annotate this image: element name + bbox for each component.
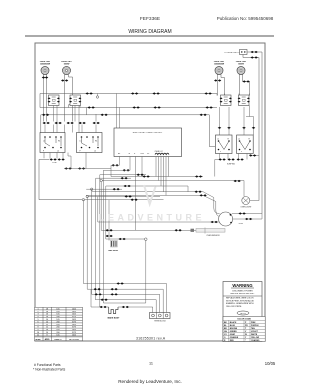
svg-text:1500W: 1500W [64, 64, 70, 66]
wires below left boxes, connector row [44, 153, 63, 159]
loop wire from connector to left and down [39, 160, 85, 200]
connector splice [45, 76, 49, 78]
svg-text:L1: L1 [217, 139, 219, 141]
svg-text:11: 11 [37, 334, 39, 336]
svg-text:L1: L1 [80, 141, 82, 143]
wire from receptacle to right bus [247, 52, 262, 214]
wire [96, 177, 131, 179]
connector splice [101, 299, 108, 301]
wire [229, 129, 244, 135]
connector below P2 [61, 79, 68, 81]
connector splice [121, 177, 128, 179]
junction circles [91, 188, 93, 190]
svg-text:W: W [245, 334, 247, 336]
extra middle wires [100, 174, 146, 176]
broil element body [110, 241, 117, 248]
long bus wire top [40, 93, 217, 95]
connector on that wire [251, 51, 258, 53]
svg-text:1015: 1015 [72, 334, 76, 336]
wire [69, 75, 73, 122]
svg-text:BLUE: BLUE [230, 325, 236, 327]
svg-text:H1: H1 [58, 141, 60, 143]
svg-text:L1: L1 [238, 139, 240, 141]
connector splice [58, 158, 65, 160]
connectors on buses [86, 92, 93, 94]
connector splice [205, 92, 212, 94]
connector splice [113, 188, 120, 190]
connector splice [88, 106, 95, 108]
connector splice [243, 80, 250, 82]
connector [251, 56, 258, 58]
wire [156, 157, 169, 196]
connector splice [137, 174, 144, 176]
wire y=176.5 [111, 176, 203, 178]
diagram border frame [35, 43, 265, 341]
connector splice [219, 158, 226, 160]
wire [145, 241, 147, 304]
svg-text:11: 11 [149, 362, 153, 366]
svg-text:#DSI: #DSI [239, 223, 244, 225]
svg-text:GREEN: GREEN [230, 331, 237, 333]
infinite switch S3 (right) [220, 95, 232, 106]
wire [97, 175, 100, 307]
watermark V logo [144, 185, 156, 204]
svg-text:TERM BLOCK: TERM BLOCK [154, 321, 166, 323]
wire [129, 306, 153, 308]
connector splice [195, 175, 202, 177]
svg-text:BEFORE SERVICING UNIT.: BEFORE SERVICING UNIT. [231, 293, 255, 295]
connectors row y=168.5 [68, 153, 86, 169]
svg-text:L2: L2 [57, 151, 59, 153]
connector splice [131, 92, 138, 94]
surface unit P2 [63, 67, 71, 75]
title rule [25, 35, 274, 37]
svg-text:YELLOW: YELLOW [251, 337, 259, 339]
svg-text:TEMP°C: TEMP°C [54, 339, 62, 341]
connector splice [228, 158, 235, 160]
svg-text:# Functional Parts: # Functional Parts [34, 363, 61, 367]
junction node [100, 179, 102, 181]
svg-text:EXAMPLE: GREEN WIRE WITH: EXAMPLE: GREEN WIRE WITH [226, 302, 254, 305]
connector splice [252, 127, 256, 129]
wire [95, 178, 156, 312]
wire [92, 189, 160, 312]
wire [89, 196, 161, 198]
svg-text:OVEN SENSOR: OVEN SENSOR [206, 235, 220, 237]
junction node [86, 195, 88, 197]
connector splice [249, 154, 256, 156]
connector splice [106, 235, 113, 237]
svg-text:OVEN LIGHT: OVEN LIGHT [241, 206, 253, 208]
wire [215, 160, 219, 177]
connector splice [50, 158, 57, 160]
wire [85, 199, 164, 201]
wire [69, 105, 80, 108]
wire [220, 106, 254, 136]
wire y=195.4 [86, 195, 220, 216]
svg-text:REPLACE WIRE, WIRE COLOR: REPLACE WIRE, WIRE COLOR [226, 297, 254, 300]
infinite switch S2 [69, 95, 81, 106]
svg-text:L2: L2 [94, 151, 96, 153]
junction node [96, 96, 98, 98]
component group [35, 308, 79, 341]
connector splice [100, 306, 107, 308]
wire [103, 169, 130, 171]
watermark circle [219, 212, 233, 226]
receptacle box [240, 50, 248, 55]
connector splice [200, 114, 207, 116]
node [244, 51, 245, 52]
wire [86, 188, 122, 190]
wire [250, 154, 259, 156]
junction node [82, 199, 84, 201]
infinite switch S1 [48, 95, 60, 106]
connector splice [153, 92, 160, 94]
surface unit P1 [41, 67, 49, 75]
wire [111, 164, 119, 166]
wire [110, 165, 112, 176]
connector splice [131, 199, 138, 201]
svg-text:COLOR CODE: COLOR CODE [237, 319, 251, 321]
wires down from unit P2 [64, 75, 66, 122]
wire [129, 157, 131, 171]
connector splice [242, 127, 246, 129]
svg-text:316255301 rev.A: 316255301 rev.A [136, 336, 166, 340]
connector splice [123, 169, 130, 171]
svg-text:PURPLE: PURPLE [251, 325, 259, 327]
junction node [145, 238, 148, 241]
wire y=186 [106, 186, 188, 192]
svg-text:PINK: PINK [251, 322, 256, 324]
wires down from unit P1 [44, 75, 47, 122]
connector splice [154, 106, 161, 108]
connector splice [111, 288, 118, 290]
wires below P3 [218, 75, 225, 96]
svg-text:LEADVENTURE: LEADVENTURE [99, 213, 205, 223]
svg-text:H1: H1 [95, 141, 97, 143]
connector splice [122, 306, 129, 308]
connector splice [133, 106, 140, 108]
color code table [223, 317, 265, 342]
wire [103, 170, 145, 303]
wire lower from receptacle [243, 55, 259, 201]
connector splice [234, 180, 241, 182]
wire [40, 94, 86, 133]
svg-text:BRL ELMT: BRL ELMT [108, 250, 119, 252]
wire y=180.5 [102, 181, 244, 197]
connector row under right boxes [220, 154, 248, 160]
svg-text:UL STYLE: UL STYLE [69, 339, 79, 341]
svg-text:10/05: 10/05 [265, 361, 276, 366]
connector splice [195, 191, 202, 193]
svg-text:ELECTRONIC OVEN CONTROL: ELECTRONIC OVEN CONTROL [133, 132, 163, 134]
wire [101, 182, 196, 231]
svg-text:BROWN: BROWN [230, 328, 238, 330]
svg-text:105: 105 [56, 334, 59, 336]
svg-text:SURF IND: SURF IND [227, 164, 236, 166]
connector splice [67, 122, 74, 124]
svg-text:DISCONNECT POWER: DISCONNECT POWER [232, 291, 253, 293]
box [196, 229, 225, 233]
svg-text:NOTE: NOTE [240, 313, 246, 315]
svg-text:WIRE: WIRE [35, 339, 41, 341]
svg-text:ORANGE: ORANGE [230, 336, 239, 339]
connector splice [95, 293, 102, 295]
connector splice [78, 167, 85, 169]
svg-text:TAN: TAN [251, 327, 255, 330]
wire [243, 75, 250, 96]
wire [64, 168, 111, 170]
svg-text:1250/2500W: 1250/2500W [40, 64, 50, 66]
infinite switch S4 (right) [238, 95, 250, 106]
wires descending from EOC pins [118, 157, 120, 166]
connector splice [206, 106, 213, 108]
svg-text:1250/2500W: 1250/2500W [214, 64, 224, 66]
connector splice [200, 194, 207, 196]
node [241, 51, 242, 52]
connector splice [237, 158, 244, 160]
connector splice [55, 122, 62, 124]
long bus wire bottom [40, 107, 217, 109]
svg-text:WARNING: WARNING [232, 283, 252, 288]
wire [98, 197, 219, 223]
wire [107, 306, 122, 308]
wire [204, 228, 206, 234]
connector splice [143, 175, 150, 177]
svg-text:GRAY: GRAY [230, 333, 236, 336]
junction circle on top bus [97, 94, 99, 96]
svg-text:RED: RED [230, 340, 235, 342]
wire [135, 157, 137, 231]
svg-text:CHASSIS: CHASSIS [251, 339, 260, 342]
long bus wire third [41, 115, 215, 147]
connectors on fanout [117, 282, 124, 284]
connector splice [94, 288, 101, 290]
connector splice [42, 76, 46, 78]
connector splice [106, 229, 113, 231]
svg-text:WHITE: WHITE [251, 334, 258, 336]
bake element squiggle [109, 307, 118, 314]
connector splice [79, 122, 86, 124]
wires from switches down to control boxes left [54, 106, 97, 133]
svg-text:VIOLET: VIOLET [251, 331, 259, 333]
box [191, 229, 195, 232]
svg-text:BAKE ELMT: BAKE ELMT [108, 317, 120, 320]
svg-text:L1: L1 [43, 141, 45, 143]
connector splice [65, 167, 72, 169]
connector splice [124, 185, 131, 187]
connector rows below EOC [112, 164, 119, 166]
wire [106, 186, 145, 239]
svg-text:1500W: 1500W [238, 64, 244, 66]
connectors above left control boxes [43, 122, 50, 124]
connector splice [125, 195, 132, 197]
connector splice [218, 127, 222, 129]
surface unit P4 [237, 67, 245, 75]
connector splice [42, 114, 49, 116]
connector splice [214, 79, 221, 81]
wire [45, 125, 96, 133]
wires below P4 [239, 75, 241, 96]
svg-text:YELLOW STRIPE.: YELLOW STRIPE. [226, 306, 242, 308]
wire [112, 241, 116, 247]
wire [87, 197, 163, 313]
svg-text:BLACK: BLACK [230, 321, 237, 324]
connector splice [111, 293, 118, 295]
svg-text:8: 8 [46, 334, 47, 336]
svg-text:NOTICE FIRST, STROKE ALUM.: NOTICE FIRST, STROKE ALUM. [226, 299, 254, 302]
connector splice [101, 114, 108, 116]
wire y=191.7 [92, 192, 220, 214]
svg-text:OVEN LGT: OVEN LGT [155, 151, 163, 153]
svg-text:Rendered by LeadVenture, Inc.: Rendered by LeadVenture, Inc. [118, 379, 182, 384]
connector splice [227, 127, 231, 129]
svg-text:AWG: AWG [45, 338, 50, 341]
wire [117, 94, 120, 129]
connector splice [93, 122, 100, 124]
wire [141, 157, 143, 177]
svg-text:* Non-Illustrated Parts: * Non-Illustrated Parts [33, 368, 66, 372]
svg-text:Publication No: 5995450698: Publication No: 5995450698 [217, 16, 274, 21]
svg-text:WIRING DIAGRAM: WIRING DIAGRAM [128, 29, 171, 35]
svg-text:FEF336E: FEF336E [140, 16, 160, 22]
surface unit P3 [215, 67, 223, 75]
connector splice [119, 238, 126, 240]
riser wire [108, 200, 110, 241]
